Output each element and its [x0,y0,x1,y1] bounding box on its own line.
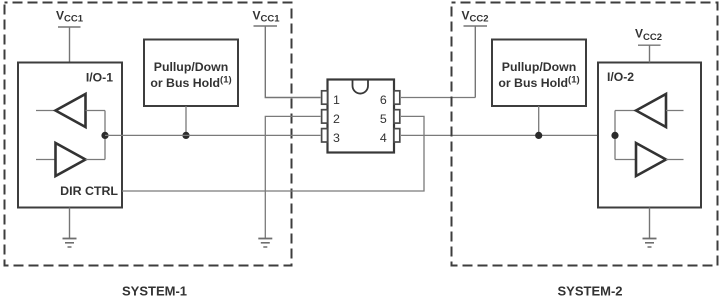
svg-text:3: 3 [333,131,340,145]
ground at pin 2 [258,239,272,248]
svg-text:6: 6 [380,93,387,107]
junction pullup data node (system-2) [535,132,542,139]
svg-text:or Bus Hold(1): or Bus Hold(1) [150,75,231,90]
wire DIR CTRL to pin 5 [122,116,424,191]
wire VCC1 to pin 1 [265,26,320,98]
power VCC2 symbol bar (right) [638,44,661,46]
pin 2 lead [322,110,328,123]
svg-text:I/O-2: I/O-2 [607,70,634,84]
system-2 dashed boundary [452,3,718,266]
buffer A2 (I/O-1 driver, points right) [56,143,86,176]
power VCC1 symbol bar (left) [58,26,81,28]
power VCC1 symbol bar (at translator) [254,25,278,27]
junction I/O-2 data node [611,132,618,139]
wire VCC2 stem to pin 6 wire [474,26,476,98]
wire pin 6 to VCC2 [401,97,475,99]
pin 3 lead [322,129,328,142]
pin 6 lead [394,91,400,104]
wire output stub buffer B2 [666,159,684,161]
pullup/down or bus hold block (system-1) [144,40,238,107]
wire input stub buffer A2 [36,159,56,161]
wire pin 2 to ground [265,116,320,238]
svg-text:2: 2 [333,112,340,126]
svg-text:SYSTEM-1: SYSTEM-1 [122,284,187,296]
svg-text:DIR CTRL: DIR CTRL [60,184,118,198]
wire pullup block to data line (system-2) [538,106,540,135]
svg-text:Pullup/Down: Pullup/Down [154,60,228,74]
pin 1 lead [322,91,328,104]
wire node to buffer B2 base [615,159,636,161]
svg-text:1: 1 [333,93,340,107]
pin 5 lead [394,110,400,123]
wire VCC1 to I/O-1 [69,27,71,63]
wire output stub buffer B1 [666,110,684,112]
svg-text:I/O-1: I/O-1 [86,71,113,85]
svg-text:5: 5 [380,112,387,126]
svg-text:SYSTEM-2: SYSTEM-2 [557,284,622,296]
wire VCC2 to I/O-2 [649,45,651,62]
junction pullup data node (system-1) [182,132,189,139]
wire input stub buffer A1 [36,110,56,112]
buffer A1 (I/O-1 receiver, points left) [56,94,86,127]
wire pullup block to data line (system-1) [185,106,187,135]
svg-text:or Bus Hold(1): or Bus Hold(1) [498,75,579,90]
wire buffer A1 base to internal node [86,110,106,112]
pin 4 lead [394,129,400,142]
translator U1 notch [353,80,369,94]
wire node to buffer B1 tip [615,110,636,112]
wire buffer A2 tip to internal node [86,159,106,161]
buffer B2 (I/O-2 driver, points right) [636,143,666,176]
svg-text:4: 4 [380,131,387,145]
translator U1 body [328,80,395,153]
I/O-2 block [598,63,701,208]
svg-text:Pullup/Down: Pullup/Down [502,60,576,74]
buffer B1 (I/O-2 receiver, points left) [636,94,666,127]
wire internal vertical I/O-2 [614,111,616,160]
wire internal vertical I/O-1 [104,111,106,160]
junction I/O-1 data node [101,132,108,139]
wire data line A: I/O-1 node to pin 3 [105,134,321,136]
power VCC2 symbol bar (at translator) [464,25,488,27]
I/O-1 block [18,63,122,208]
system-1 dashed boundary [5,3,292,266]
wire data line B: pin 4 to I/O-2 node [401,134,615,136]
ground below I/O-2 [643,208,657,248]
pullup/down or bus hold block (system-2) [492,40,586,107]
ground below I/O-1 [63,208,77,248]
